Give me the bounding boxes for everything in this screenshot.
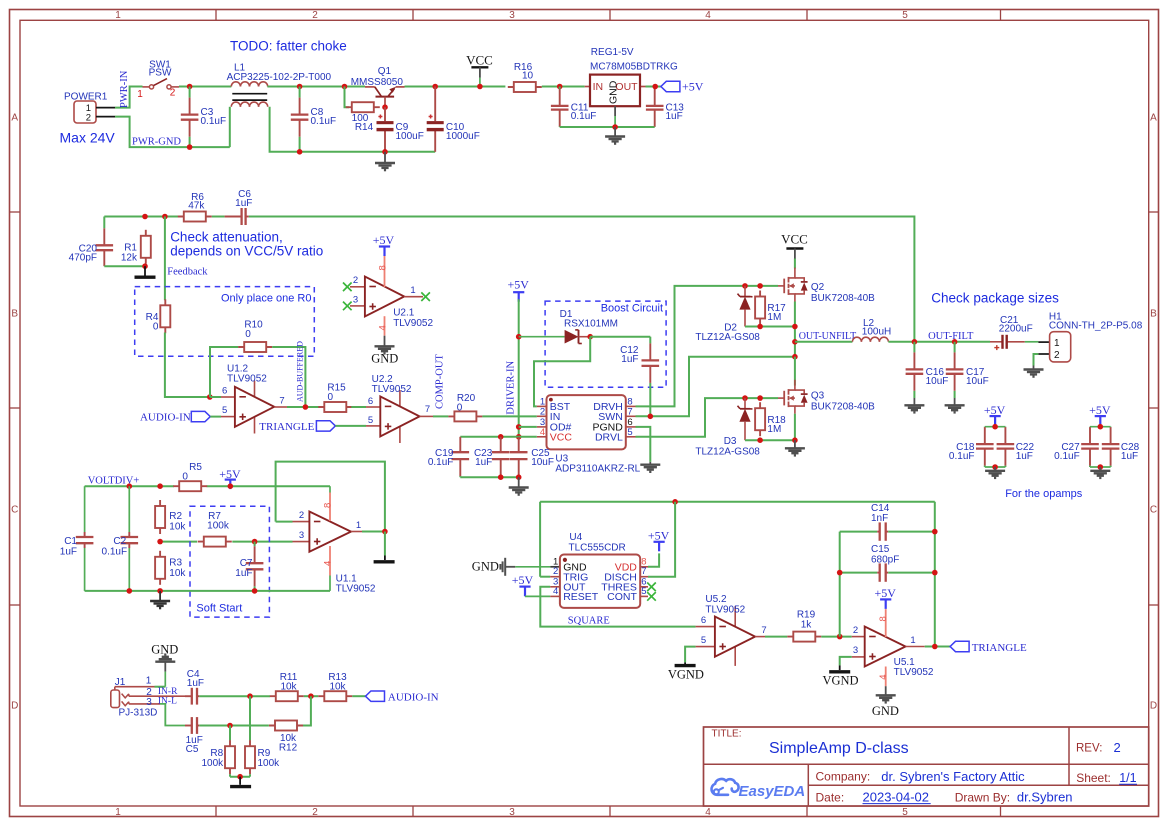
junction at Q1 base R14: [382, 104, 388, 110]
net label IN-R: [158, 687, 178, 697]
power +5V flag for U2.1: [373, 233, 395, 256]
wire R10 left loop: [210, 347, 238, 397]
svg-text:470pF: 470pF: [69, 252, 97, 263]
wire U1.1 feedback loop: [276, 462, 385, 532]
svg-text:TRIANGLE: TRIANGLE: [972, 642, 1027, 654]
wire U2.2 output to R20: [420, 415, 449, 417]
junction at Q3 gate D3: [742, 395, 748, 401]
wire U5.2 pin5 to VGND: [685, 647, 696, 664]
wire Q2 source: [794, 302, 796, 357]
wire C15 right: [888, 572, 935, 574]
power +5V flag at RESET: [512, 573, 550, 596]
junction at OD row: [516, 424, 522, 430]
net label COMP-OUT: [434, 354, 445, 409]
ground bar below R8 R9: [230, 777, 251, 787]
svg-text:1: 1: [115, 10, 121, 21]
junction at C23 bottom: [498, 474, 504, 480]
pin 4 stub U2.1: [377, 316, 388, 336]
wire H1 pin2 to ground: [1034, 354, 1039, 366]
junction at U1.2 output: [303, 404, 309, 410]
junction at C16 top: [912, 339, 918, 345]
wire D1 to C12: [590, 336, 650, 338]
svg-text:1nF: 1nF: [871, 513, 888, 524]
svg-text:7: 7: [425, 404, 430, 415]
junction at C9 bottom ground: [382, 149, 388, 155]
svg-text:TLV9052: TLV9052: [227, 374, 267, 385]
svg-text:10uF: 10uF: [531, 457, 554, 468]
capacitor C4: [185, 669, 204, 704]
wire C5 to R12: [199, 725, 269, 727]
svg-text:+5V: +5V: [682, 80, 704, 94]
net label DRIVER-IN: [505, 361, 516, 415]
title block: [704, 727, 1149, 806]
diode D3 TLZ12A-GS08: [695, 398, 760, 457]
svg-text:1uF: 1uF: [60, 546, 77, 557]
op-amp U5.2 TLV9052: [696, 594, 767, 666]
svg-text:5: 5: [641, 586, 646, 597]
resistor R15: [318, 383, 352, 413]
wire BST boost path: [534, 337, 590, 407]
junction at C17 top: [952, 339, 958, 345]
svg-text:3: 3: [853, 645, 858, 656]
wire OD to U3: [519, 426, 537, 428]
wire C20 R1 bottom rail: [104, 265, 145, 267]
svg-text:D: D: [1150, 701, 1157, 712]
svg-text:+5V: +5V: [984, 403, 1006, 417]
wire decoupling bottom rail: [460, 476, 518, 478]
wire R16 to REG IN: [542, 86, 585, 88]
transistor Q1 MMSS8050: [351, 66, 405, 107]
svg-text:12k: 12k: [121, 252, 138, 263]
svg-text:2: 2: [86, 112, 91, 123]
junction at R3 bottom: [157, 588, 163, 594]
resistor R16: [508, 62, 542, 92]
svg-text:D: D: [11, 701, 18, 712]
wire to R14: [345, 87, 350, 108]
junction at R2 top: [157, 483, 163, 489]
svg-text:+5V: +5V: [1089, 403, 1111, 417]
svg-text:+5V: +5V: [507, 278, 529, 292]
resistor R10: [238, 320, 272, 352]
junction at DISCH top: [672, 499, 678, 505]
wire voltdiv bottom rail: [85, 590, 330, 592]
junction at C2 top: [127, 483, 133, 489]
svg-text:1uF: 1uF: [187, 678, 204, 689]
junction at C10 top: [432, 84, 438, 90]
junction at C4 R9 node: [247, 693, 253, 699]
resistor R5: [173, 462, 207, 491]
junction at C8 top: [297, 84, 303, 90]
svg-text:0: 0: [457, 402, 463, 413]
wire D3 R18 bottom rail: [745, 439, 795, 441]
svg-text:C5: C5: [186, 744, 199, 755]
svg-text:IN-L: IN-L: [158, 696, 177, 706]
svg-text:EasyEDA: EasyEDA: [739, 783, 806, 800]
svg-text:Check package sizes: Check package sizes: [931, 291, 1059, 306]
svg-text:TLV9052: TLV9052: [393, 318, 433, 329]
ground under H1: [1024, 366, 1044, 377]
svg-text:3: 3: [353, 294, 358, 305]
wire R20 to U3 IN: [482, 415, 536, 417]
junction at Q2 source rail: [792, 324, 798, 330]
resistor R1: [121, 230, 151, 264]
power flag VCC top: [466, 53, 493, 87]
svg-text:+5V: +5V: [874, 586, 896, 600]
op-amp U2.1 TLV9052 unused: [343, 275, 433, 329]
svg-text:CONN-TH_2P-P5.08: CONN-TH_2P-P5.08: [1049, 321, 1143, 332]
svg-text:100uH: 100uH: [862, 327, 891, 338]
junction at VCC row: [516, 434, 522, 440]
junction at C3 top: [187, 84, 193, 90]
svg-text:TLV9052: TLV9052: [705, 604, 745, 615]
capacitor C14: [871, 503, 890, 541]
capacitor C9: [377, 107, 424, 152]
resistor R11: [270, 672, 304, 701]
ground bar VGND U5.2: [668, 666, 704, 682]
svg-text:100k: 100k: [202, 758, 225, 769]
svg-text:1k: 1k: [801, 619, 813, 630]
wire switch node to Q3 drain: [794, 357, 796, 386]
svg-text:1000uF: 1000uF: [446, 131, 480, 142]
resistor R7: [198, 511, 232, 547]
net label Feedback: [167, 267, 208, 278]
svg-text:47k: 47k: [188, 201, 205, 212]
capacitors C18 C22 with +5V: [949, 403, 1035, 478]
EasyEDA logo: [711, 779, 805, 800]
wire C14 C15 left loop: [840, 532, 878, 637]
svg-text:PJ-313D: PJ-313D: [119, 707, 158, 718]
junction at C14 right: [932, 529, 938, 535]
svg-text:1uF: 1uF: [235, 568, 252, 579]
svg-text:10k: 10k: [280, 681, 297, 692]
net port AUDIO-IN at U1.2: [140, 411, 221, 423]
svg-text:0: 0: [245, 329, 251, 340]
svg-text:RSX101MM: RSX101MM: [564, 318, 618, 329]
ground under Q3: [785, 440, 805, 455]
ground below U5.1: [872, 686, 899, 718]
svg-text:C: C: [11, 505, 18, 516]
junction at R11 R13 node: [308, 693, 314, 699]
wire U1.1 output: [351, 531, 385, 533]
junction at U1.1 output: [382, 529, 388, 535]
net label PWR-IN: [119, 70, 130, 108]
wire PWR-GND rail: [115, 117, 230, 148]
svg-text:0.1uF: 0.1uF: [428, 457, 454, 468]
junction at +5V voltdiv: [228, 483, 234, 489]
svg-text:Q1: Q1: [378, 66, 392, 77]
svg-text:1uF: 1uF: [1016, 451, 1033, 462]
svg-text:5: 5: [627, 427, 632, 438]
svg-text:SQUARE: SQUARE: [568, 616, 610, 627]
wire feedback down to R4: [164, 217, 166, 301]
op-amp U1.2 TLV9052: [221, 364, 285, 434]
svg-text:VGND: VGND: [822, 673, 858, 687]
svg-text:BUK7208-40B: BUK7208-40B: [811, 401, 875, 412]
svg-text:0.1uF: 0.1uF: [201, 116, 227, 127]
svg-text:PWR-GND: PWR-GND: [132, 136, 181, 147]
resistor R9: [245, 740, 280, 774]
net port AUDIO-IN bottom: [366, 691, 439, 703]
svg-text:REV:: REV:: [1076, 743, 1102, 755]
resistor R6: [178, 192, 212, 222]
svg-text:R5: R5: [189, 462, 202, 473]
capacitor C2: [102, 486, 139, 591]
annotation check package sizes: [931, 291, 1059, 306]
wire output to ground bar: [384, 532, 386, 561]
resistor R20: [448, 393, 482, 421]
svg-text:Sheet:: Sheet:: [1076, 771, 1111, 785]
junction at C5 R8 node: [227, 723, 233, 729]
wire Q3 source: [794, 414, 796, 441]
wire DRVH to Q2 gate: [636, 286, 779, 407]
power +5V flag driver: [507, 278, 529, 302]
capacitor C5: [185, 717, 203, 755]
net label SQUARE: [568, 616, 610, 627]
svg-text:1uF: 1uF: [666, 111, 683, 122]
svg-text:A: A: [1150, 113, 1157, 124]
svg-text:OUT-FILT: OUT-FILT: [928, 331, 974, 342]
svg-text:5: 5: [902, 10, 908, 21]
junction at TRIANGLE node: [932, 644, 938, 650]
wire U5.2 output to R19: [755, 636, 787, 638]
svg-text:A: A: [11, 113, 18, 124]
voltage regulator REG1 MC78M05BDTRKG: [585, 47, 678, 127]
junction at REG gnd: [612, 124, 618, 130]
svg-text:1uF: 1uF: [1121, 451, 1138, 462]
annotation Max 24V: [60, 130, 116, 146]
wire U5.1 output: [906, 646, 951, 648]
power flag VCC at Q2: [781, 232, 808, 269]
svg-text:10k: 10k: [329, 681, 346, 692]
net label IN-L: [158, 696, 177, 706]
ground under C17: [945, 398, 965, 412]
svg-text:2023-04-02: 2023-04-02: [863, 789, 930, 804]
wire Q1 emitter to R16: [405, 86, 506, 88]
svg-text:100k: 100k: [258, 758, 281, 769]
wire VCC row: [460, 436, 537, 438]
net label PWR-GND: [132, 136, 181, 147]
svg-text:4: 4: [878, 675, 889, 680]
svg-text:TLV9052: TLV9052: [336, 583, 376, 594]
svg-text:4: 4: [553, 586, 558, 597]
svg-text:CONT: CONT: [607, 591, 637, 603]
net label AUD-BUFFERED: [295, 341, 304, 402]
svg-text:COMP-OUT: COMP-OUT: [434, 354, 445, 409]
capacitor C1: [60, 486, 94, 591]
junction at D1 cathode: [587, 334, 593, 340]
svg-text:4: 4: [322, 561, 333, 566]
svg-text:B: B: [11, 309, 18, 320]
wire DRVL to Q3 gate: [636, 398, 779, 437]
junction at R19 C15 node: [837, 634, 843, 640]
connector POWER1: [64, 91, 115, 123]
svg-text:10uF: 10uF: [966, 376, 989, 387]
svg-text:AUDIO-IN: AUDIO-IN: [140, 412, 191, 424]
svg-text:1: 1: [1054, 338, 1060, 349]
junction at SWN node: [792, 354, 798, 360]
capacitor C3: [181, 87, 226, 148]
svg-text:1M: 1M: [767, 312, 781, 323]
junction at R1 top: [142, 214, 148, 220]
ic U4 TLC555CDR: [550, 532, 648, 608]
inductor L1 common-mode choke: [227, 63, 332, 107]
svg-text:RESET: RESET: [563, 591, 599, 603]
junction at C23 top: [498, 434, 504, 440]
ground under C9: [375, 152, 395, 170]
svg-text:R14: R14: [355, 122, 374, 133]
resistor R8: [202, 740, 235, 774]
svg-text:VCC: VCC: [781, 232, 808, 247]
svg-text:8: 8: [377, 265, 388, 270]
svg-text:For the opamps: For the opamps: [1005, 488, 1083, 500]
op-amp U1.1 TLV9052: [293, 510, 376, 594]
capacitor C15: [871, 544, 899, 582]
annotation TODO: [230, 39, 347, 54]
svg-text:3: 3: [146, 697, 152, 708]
svg-text:OUT-UNFILT: OUT-UNFILT: [799, 331, 857, 342]
capacitor C20: [69, 217, 113, 267]
capacitor C7: [235, 542, 263, 591]
svg-text:TLC555CDR: TLC555CDR: [569, 542, 626, 553]
dashed box Boost Circuit: [545, 301, 666, 387]
wire +5V driver vertical: [518, 299, 520, 437]
power flag GND at U4: [472, 558, 551, 576]
svg-text:Max 24V: Max 24V: [60, 130, 116, 146]
resistor R19: [787, 610, 821, 642]
capacitor C25: [510, 437, 554, 477]
svg-text:DRVL: DRVL: [595, 431, 623, 443]
svg-text:1uF: 1uF: [475, 457, 492, 468]
svg-text:+5V: +5V: [512, 573, 534, 587]
svg-text:6: 6: [368, 396, 373, 407]
junction at R17 bottom: [757, 324, 763, 330]
wire R8 R9 bottom rail: [230, 774, 250, 777]
ground under R3: [150, 591, 170, 608]
annotation check attenuation: [170, 230, 323, 259]
svg-text:POWER1: POWER1: [64, 91, 108, 102]
diode D1 RSX101MM: [519, 309, 618, 343]
svg-text:5: 5: [902, 807, 908, 818]
svg-text:100uF: 100uF: [396, 131, 424, 142]
svg-text:REG1-5V: REG1-5V: [591, 47, 634, 58]
svg-text:VCC: VCC: [466, 53, 493, 68]
svg-text:depends on VCC/5V ratio: depends on VCC/5V ratio: [170, 244, 323, 259]
net label OUT-FILT: [928, 331, 974, 342]
wire REG ground rail: [560, 126, 655, 128]
svg-text:TODO: fatter choke: TODO: fatter choke: [230, 39, 347, 54]
junction at C3 bottom: [187, 144, 193, 150]
svg-text:4: 4: [705, 807, 711, 818]
junction at D1 anode: [516, 334, 522, 340]
pin 4 stub U5.1: [878, 667, 889, 687]
capacitor C10: [427, 87, 480, 152]
svg-text:1: 1: [410, 285, 415, 296]
svg-text:GND: GND: [371, 352, 398, 366]
svg-text:Check attenuation,: Check attenuation,: [170, 230, 283, 245]
ground bar below U1.1 output: [374, 560, 395, 563]
resistor R12: [269, 721, 303, 754]
svg-text:3: 3: [509, 807, 515, 818]
svg-text:GND: GND: [608, 80, 620, 104]
wire feedback top rail: [104, 216, 178, 218]
wire pin6 stub U1.2: [210, 396, 221, 398]
svg-text:2: 2: [312, 10, 318, 21]
switch SW1: [137, 59, 179, 100]
resistor R4: [146, 299, 171, 333]
svg-text:C15: C15: [871, 544, 890, 555]
wire R4 to U1.2 pin6: [165, 333, 210, 398]
wire R9 column: [249, 696, 251, 740]
wire L2 to C21: [888, 341, 990, 343]
svg-text:2200uF: 2200uF: [999, 324, 1033, 335]
svg-text:10k: 10k: [169, 522, 186, 533]
svg-text:ACP3225-102-2P-T000: ACP3225-102-2P-T000: [227, 72, 332, 83]
ground below U2.1: [371, 336, 398, 366]
capacitor C8: [291, 87, 336, 152]
svg-text:1: 1: [137, 89, 143, 100]
no-connect CONT: [647, 592, 656, 601]
wire SWN to switch node: [636, 357, 795, 417]
op-amp U2.2 TLV9052: [366, 374, 430, 443]
ground under REG: [605, 127, 625, 144]
wire switch to L1: [179, 86, 231, 88]
svg-text:R12: R12: [279, 743, 298, 754]
svg-text:dr. Sybren's Factory Attic: dr. Sybren's Factory Attic: [881, 769, 1025, 784]
junction at C2 bottom: [127, 588, 133, 594]
wire OUT-UNFILT to L2: [795, 341, 853, 343]
svg-text:7: 7: [761, 625, 766, 636]
svg-text:R3: R3: [169, 557, 182, 568]
wire POWER1 pin1 to switch: [115, 87, 143, 108]
wire R8 column: [229, 726, 231, 741]
op-amp U5.1 TLV9052: [852, 625, 934, 678]
svg-text:5: 5: [701, 635, 706, 646]
junction at Q3 source gnd: [792, 437, 798, 443]
svg-text:TLZ12A-GS08: TLZ12A-GS08: [695, 332, 760, 343]
svg-text:Date:: Date:: [816, 790, 845, 804]
svg-text:Only place one R0: Only place one R0: [221, 292, 312, 304]
svg-text:100k: 100k: [207, 521, 230, 532]
wire U5.1 pin3 to VGND: [840, 657, 852, 670]
wire DISCH up: [648, 502, 675, 577]
svg-text:IN: IN: [593, 81, 604, 93]
svg-text:MC78M05BDTRKG: MC78M05BDTRKG: [590, 62, 678, 73]
svg-text:3: 3: [299, 530, 304, 541]
capacitor C17: [946, 342, 989, 398]
wire VDD to +5V: [648, 529, 670, 567]
junction at R8 R9 gnd: [237, 774, 243, 780]
svg-text:6: 6: [701, 615, 706, 626]
wire voltdiv top rail: [85, 485, 330, 487]
transistor Q2 BUK7208-40B: [778, 268, 875, 305]
svg-text:B: B: [1150, 309, 1157, 320]
svg-text:10: 10: [522, 71, 534, 82]
svg-text:4: 4: [377, 325, 388, 330]
junction at C25 bottom: [516, 474, 522, 480]
svg-text:TITLE:: TITLE:: [712, 729, 742, 740]
power flag GND at J1: [151, 642, 178, 686]
svg-text:MMSS8050: MMSS8050: [351, 77, 404, 88]
svg-text:AUDIO-IN: AUDIO-IN: [388, 691, 439, 703]
junction at R2 R3 node: [157, 539, 163, 545]
wire R11 to R13: [304, 695, 319, 697]
svg-text:TRIANGLE: TRIANGLE: [259, 421, 314, 433]
capacitor C11: [551, 87, 596, 128]
wire R12 up to junction: [303, 696, 311, 725]
svg-text:1: 1: [146, 676, 152, 687]
svg-text:C: C: [1150, 505, 1157, 516]
resistor R3: [155, 551, 186, 585]
